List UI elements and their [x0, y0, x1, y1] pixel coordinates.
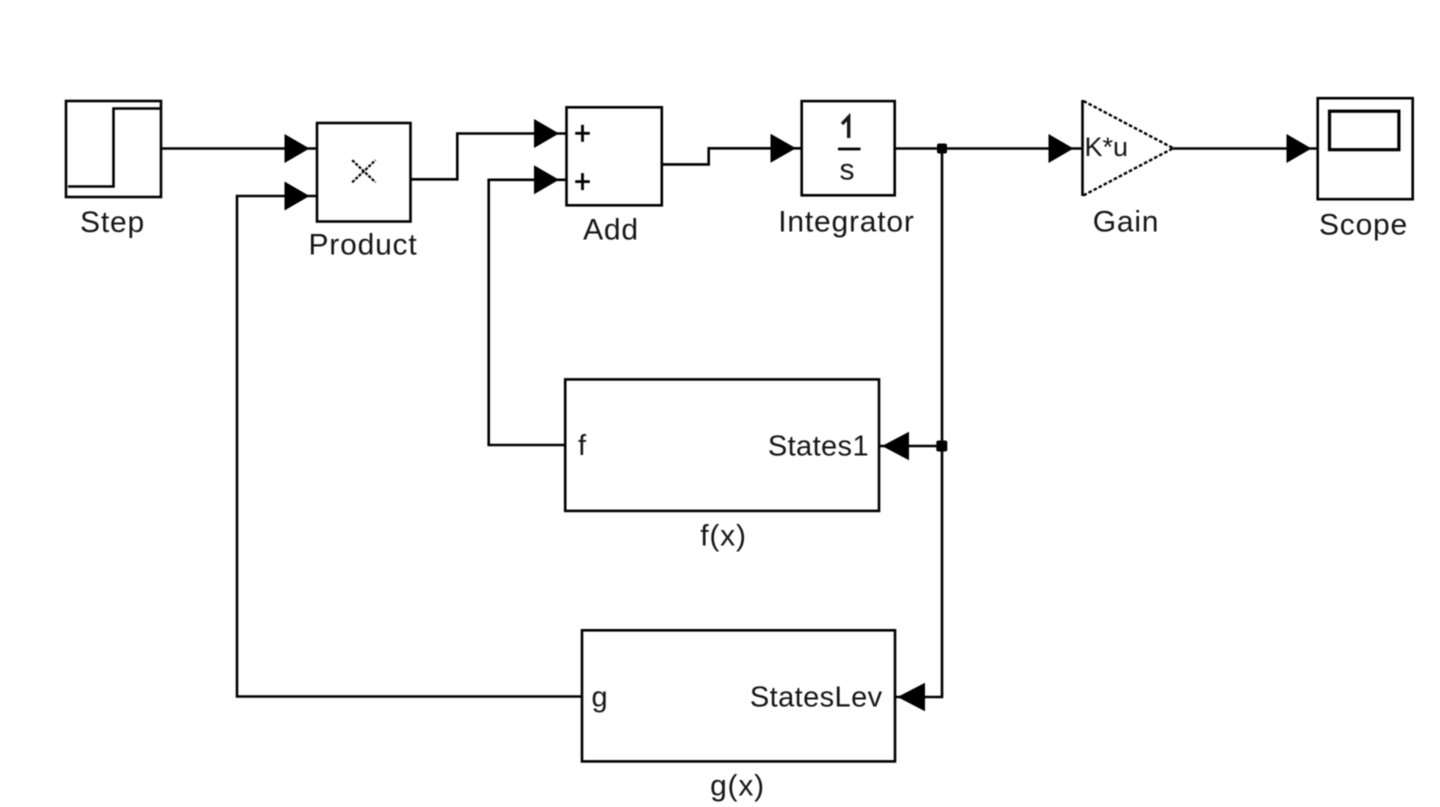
svg-text:s: s: [840, 154, 855, 187]
block Integrator: [802, 101, 895, 195]
label Step: [80, 206, 145, 239]
label Integrator: [778, 206, 914, 239]
svg-text:States1: States1: [768, 431, 869, 463]
label Add: [583, 214, 639, 247]
arrowhead Integrator input: [771, 134, 797, 163]
svg-text:Gain: Gain: [1093, 206, 1160, 239]
wire f(x) output to Add input 2: [489, 180, 567, 445]
svg-text:Add: Add: [583, 214, 639, 247]
svg-text:g: g: [592, 682, 609, 714]
arrowhead Product input 1: [285, 134, 310, 163]
arrowhead Product input 2: [285, 182, 310, 211]
wire Step to Product input 1: [161, 147, 317, 150]
label Gain: [1093, 206, 1160, 239]
wire feedback from junction down to g(x) StatesLev: [895, 149, 942, 698]
wire g(x) output to Product input 2: [237, 196, 582, 697]
label Scope: [1319, 209, 1408, 242]
svg-text:Integrator: Integrator: [778, 206, 914, 239]
svg-text:Product: Product: [309, 229, 418, 262]
label f(x): [700, 520, 747, 553]
wire Product output to Add input 1: [411, 134, 567, 180]
svg-text:Scope: Scope: [1319, 209, 1408, 242]
port label g: [592, 682, 609, 714]
block Product: [317, 123, 411, 222]
block g(x): [582, 630, 895, 761]
block Add: [567, 107, 662, 205]
arrowhead Add input 1: [534, 119, 559, 148]
wire Integrator output to Gain: [895, 147, 1083, 150]
svg-text:f: f: [578, 430, 587, 462]
svg-text:f(x): f(x): [700, 520, 747, 553]
arrowhead Scope input: [1287, 134, 1312, 163]
wire Add output to Integrator: [662, 148, 802, 164]
arrowhead g(x) StatesLev input: [898, 683, 926, 711]
svg-text:StatesLev: StatesLev: [750, 682, 883, 714]
svg-text:Step: Step: [80, 206, 145, 239]
wire Gain output to Scope: [1173, 147, 1318, 150]
wire branch to f(x) States1: [879, 445, 942, 448]
block Scope: [1318, 98, 1413, 199]
port label States1: [768, 431, 869, 463]
label Product: [309, 229, 418, 262]
junction node at Integrator output: [937, 144, 947, 154]
label g(x): [710, 770, 765, 803]
port label f: [578, 430, 587, 462]
block f(x): [565, 379, 879, 511]
arrowhead f(x) States1 input: [882, 432, 909, 460]
block Step: [66, 101, 161, 197]
junction node at States1 branch: [936, 441, 947, 452]
arrowhead Gain input: [1049, 134, 1074, 163]
svg-text:K*u: K*u: [1085, 132, 1129, 162]
port label StatesLev: [750, 682, 883, 714]
arrowhead Add input 2: [534, 165, 559, 194]
svg-text:g(x): g(x): [710, 770, 765, 803]
block Gain: [1083, 100, 1174, 196]
